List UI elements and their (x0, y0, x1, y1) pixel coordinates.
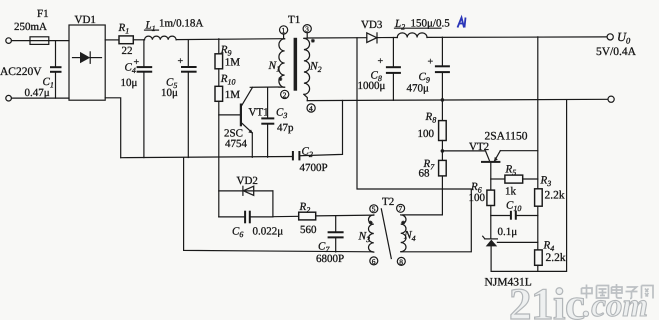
svg-text:VT1: VT1 (249, 107, 269, 119)
diode VD2 (219, 190, 273, 192)
svg-text:AC220V: AC220V (0, 66, 42, 78)
wire VD3 to L2 (377, 37, 397, 39)
svg-text:4700P: 4700P (300, 162, 328, 174)
pin 8 (397, 257, 405, 265)
svg-text:8: 8 (399, 257, 403, 266)
wire (12, 40, 31, 42)
input terminal top (6, 38, 12, 44)
wire drop to lower ground rail (184, 158, 373, 252)
wire VD1 top output (105, 39, 119, 41)
output terminal top (607, 34, 613, 40)
svg-text:2.2k: 2.2k (546, 252, 566, 264)
capacitor C6 (219, 216, 245, 218)
winding N3 (369, 215, 374, 252)
wire R8 to R7 (441, 141, 443, 161)
inductor L1 (145, 36, 177, 40)
svg-text:+: + (428, 57, 434, 68)
wire base node down to VD2/C6 (218, 101, 220, 217)
svg-text:47p: 47p (277, 122, 294, 134)
wire pin7 to R7 (403, 176, 443, 215)
svg-text:1m/0.18A: 1m/0.18A (159, 18, 203, 30)
svg-text:4754: 4754 (225, 138, 248, 150)
watermark chinese 中国电子网 drawn as strokes (582, 284, 654, 299)
capacitor C7 (335, 216, 337, 233)
svg-text:F1: F1 (37, 8, 49, 20)
wire (12, 97, 70, 99)
svg-text:6800P: 6800P (316, 253, 344, 265)
wire +5V vertical (537, 37, 539, 189)
wire top rail to T1 (176, 38, 284, 41)
pin 2 (281, 90, 289, 98)
winding N1 (279, 39, 285, 87)
wire R3 to R4 (537, 206, 539, 250)
svg-text:+: + (178, 56, 184, 67)
svg-text:250mA: 250mA (14, 21, 47, 33)
junction C9/R8 on return rail (441, 98, 445, 102)
capacitor C10 (491, 215, 511, 217)
pin 6 (370, 257, 378, 265)
svg-text:1M: 1M (225, 89, 241, 101)
svg-text:1k: 1k (505, 186, 517, 198)
pin 4 (307, 104, 315, 112)
svg-text:470μ: 470μ (407, 83, 430, 95)
svg-text:2: 2 (283, 90, 287, 99)
svg-text:68: 68 (419, 168, 431, 180)
wire N2 bottom lead (304, 94, 307, 100)
wire top rail from T1 pin3 to VD3 (307, 37, 367, 39)
wire collector node (250, 86, 279, 88)
svg-text:1000μ: 1000μ (358, 80, 386, 92)
resistor R8 (439, 121, 447, 141)
transistor VT1 2SC4754 (240, 104, 242, 127)
svg-text:0.022μ: 0.022μ (253, 226, 284, 238)
polarity dot N4 (401, 221, 405, 225)
pin 5 (370, 205, 378, 213)
wire sense line from VD3 anode down to box around N4 (357, 38, 471, 252)
wire R6 to NJM431 cathode (490, 206, 492, 239)
resistor R6 (487, 190, 495, 205)
pin 3 (303, 25, 311, 33)
wire collector of VT2 (442, 150, 485, 152)
capacitor C9 (441, 37, 443, 66)
polarity dot N3 (369, 221, 373, 225)
capacitor C5 (187, 40, 189, 67)
svg-text:VD1: VD1 (75, 14, 96, 26)
polarity dot N2 (311, 39, 315, 43)
svg-text:21ic: 21ic (509, 279, 584, 320)
svg-text:100: 100 (418, 128, 435, 140)
transistor VT2 2SA1150 (486, 151, 490, 161)
svg-text:10μ: 10μ (161, 87, 178, 99)
svg-text:VT2: VT2 (469, 141, 489, 153)
wire (133, 39, 144, 41)
wire N1 bottom to collector node (279, 86, 285, 88)
svg-text:+: + (378, 56, 384, 67)
winding N2 (304, 38, 310, 94)
wire VD2 to C6 right leg (272, 191, 274, 217)
inductor L2 (397, 33, 427, 38)
svg-text:7: 7 (399, 204, 403, 213)
wire secondary return rail (307, 99, 608, 100)
fuse F1 (30, 37, 49, 45)
resistor R4 (535, 250, 543, 265)
polarity dot N1 (278, 77, 282, 81)
diode VD3 (367, 33, 377, 43)
svg-text:5V/0.4A: 5V/0.4A (596, 46, 637, 58)
watermark blue glyph (458, 18, 466, 28)
svg-text:560: 560 (300, 224, 317, 236)
capacitor C4 (143, 40, 145, 67)
svg-text:10μ: 10μ (121, 77, 138, 89)
input terminal bottom (6, 95, 12, 101)
svg-text:22: 22 (122, 45, 133, 57)
wire to R2 (273, 215, 299, 217)
core T1 (294, 38, 298, 91)
winding N4 (401, 215, 406, 252)
resistor R9 (218, 39, 220, 54)
bridge rectifier VD1 (69, 25, 105, 100)
capacitor C8 (392, 38, 394, 68)
resistor R7 (439, 160, 447, 176)
svg-text:2SA1150: 2SA1150 (485, 131, 528, 143)
core T2 (381, 209, 391, 259)
svg-text:1M: 1M (225, 57, 241, 69)
svg-text:VD2: VD2 (237, 175, 258, 187)
svg-text:T2: T2 (382, 196, 394, 208)
wire NJM431 ref (497, 241, 537, 243)
svg-text:6: 6 (372, 257, 376, 266)
wire VD1 bottom output (105, 98, 121, 158)
svg-text:4: 4 (309, 104, 313, 113)
svg-text:0.47μ: 0.47μ (25, 87, 50, 99)
svg-text:5: 5 (372, 205, 376, 214)
pin 7 (397, 204, 405, 212)
svg-text:0.1μ: 0.1μ (498, 226, 518, 238)
pin 1 (280, 26, 288, 34)
wire (49, 40, 69, 42)
resistor R10 (218, 69, 220, 87)
wire C2 right leg up to return rail (299, 101, 342, 156)
svg-text:2.2k: 2.2k (545, 190, 565, 202)
capacitor C3 (267, 87, 269, 118)
resistor R5 (491, 178, 505, 180)
resistor R3 (535, 189, 543, 206)
shunt regulator NJM431L (485, 238, 498, 240)
wire R2 to T2 pin5 (316, 214, 374, 217)
output terminal bottom (608, 96, 614, 102)
svg-text:100: 100 (469, 192, 486, 204)
resistor R2 (299, 212, 316, 220)
wire primary ground rail (121, 157, 293, 158)
capacitor C2 (292, 151, 294, 160)
wire bottom return of regulator (491, 100, 566, 272)
wire L2 to output (427, 36, 607, 39)
svg-text:VD3: VD3 (361, 19, 383, 31)
svg-text:T1: T1 (288, 14, 300, 26)
junction base node (441, 149, 445, 153)
wire base to VT1 (219, 114, 240, 116)
wire emitter of VT2 to +5V (500, 150, 538, 152)
capacitor C1 (55, 41, 57, 68)
resistor R1 (119, 36, 133, 44)
